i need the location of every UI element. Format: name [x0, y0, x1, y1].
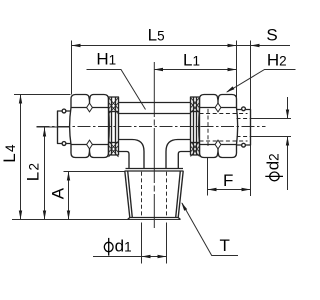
svg-text:T: T: [220, 236, 230, 255]
svg-text:H2: H2: [267, 51, 287, 70]
svg-text:H1: H1: [96, 50, 116, 69]
svg-text:d2: d2: [264, 153, 283, 170]
svg-text:L1: L1: [183, 50, 200, 69]
svg-text:L2: L2: [23, 163, 42, 181]
svg-text:L5: L5: [148, 26, 165, 45]
svg-text:L4: L4: [0, 144, 19, 163]
svg-text:S: S: [266, 26, 277, 45]
svg-text:F: F: [223, 171, 233, 190]
svg-text:A: A: [48, 187, 67, 199]
svg-text:d1: d1: [115, 236, 132, 255]
